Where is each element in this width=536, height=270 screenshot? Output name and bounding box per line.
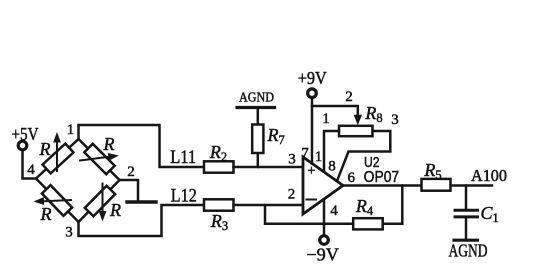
wire node 2 to ground stub [120, 180, 139, 201]
wire op-amp output pin 6 to R5 [343, 184, 422, 187]
svg-text:L11: L11 [170, 147, 196, 168]
wire output node to C1 [465, 186, 468, 209]
AGND symbol below C1 [449, 240, 488, 260]
svg-text:4: 4 [27, 162, 35, 178]
resistor R2 [204, 142, 234, 173]
wire R2 to op-amp pin 3 [234, 166, 304, 169]
svg-text:R8: R8 [364, 103, 382, 125]
strain gauge R (bottom-right arm) [85, 184, 121, 222]
svg-text:AGND: AGND [239, 91, 274, 106]
resistor R3 [204, 199, 234, 233]
svg-text:8: 8 [328, 159, 336, 175]
svg-text:C1: C1 [481, 203, 499, 225]
wire +9V to R8 wiper (terminal 2) with arrow [312, 106, 362, 125]
svg-text:R7: R7 [267, 125, 285, 147]
wire R5 to output node A100 [451, 184, 493, 187]
svg-text:R4: R4 [355, 196, 374, 218]
strain gauge R (top-left arm) [39, 132, 74, 173]
strain gauge R (top-right arm) [80, 134, 119, 174]
+9V supply terminal [298, 68, 327, 97]
op-amp U2 triangle [303, 157, 343, 214]
svg-text:3: 3 [65, 225, 73, 241]
svg-text:A100: A100 [471, 166, 507, 185]
svg-text:2: 2 [288, 187, 296, 203]
svg-text:OP07: OP07 [364, 169, 400, 186]
svg-text:3: 3 [391, 112, 399, 128]
svg-text:R: R [109, 200, 121, 220]
wire C1 to AGND [465, 219, 468, 239]
wire node 1 to R2 (net L11) [79, 125, 205, 167]
svg-text:1: 1 [322, 111, 330, 127]
wire +9V to op-amp pin 7 [311, 98, 314, 164]
+5V supply terminal [12, 124, 39, 150]
svg-text:R: R [40, 204, 52, 224]
potentiometer R8 [339, 103, 383, 136]
wire node 3 to R3 (net L12) [79, 205, 205, 236]
svg-text:R3: R3 [210, 211, 228, 233]
svg-text:+9V: +9V [298, 68, 327, 88]
wire +5V to bridge node 4 [23, 150, 37, 179]
svg-text:2: 2 [345, 89, 353, 105]
svg-text:AGND: AGND [449, 241, 488, 261]
wire R3 to op-amp pin 2 [234, 204, 304, 207]
strain gauge R (bottom-left arm) [34, 185, 73, 224]
capacitor C1 [455, 203, 499, 225]
ground bar at node 2 [127, 200, 156, 203]
feedback wire R4 to inverting input [265, 205, 353, 224]
wire op-amp pin 4 to -9V [323, 199, 326, 235]
svg-text:−9V: −9V [306, 245, 339, 265]
resistor R7 [252, 109, 285, 167]
svg-text:R5: R5 [423, 160, 441, 182]
svg-text:2: 2 [127, 164, 135, 180]
svg-text:3: 3 [288, 152, 296, 168]
svg-text:R: R [103, 134, 115, 154]
svg-text:+: + [307, 163, 315, 179]
svg-text:7: 7 [301, 146, 309, 162]
svg-text:4: 4 [330, 203, 338, 219]
wire R8 terminal 3 to op-amp pin 8 [337, 131, 390, 181]
-9V supply terminal [306, 236, 339, 265]
svg-text:L12: L12 [171, 186, 197, 207]
feedback wire output to R4 [383, 186, 403, 224]
svg-text:1: 1 [315, 149, 323, 165]
bridge diamond wires [36, 139, 120, 222]
resistor R4 [353, 196, 383, 229]
svg-text:R: R [39, 139, 51, 159]
resistor R5 [422, 160, 451, 191]
svg-text:1: 1 [67, 122, 75, 138]
AGND symbol above R7 [237, 91, 275, 108]
wire R8 terminal 1 to op-amp pin 1 [324, 131, 339, 172]
svg-text:6: 6 [347, 170, 355, 186]
svg-text:R2: R2 [209, 142, 227, 164]
